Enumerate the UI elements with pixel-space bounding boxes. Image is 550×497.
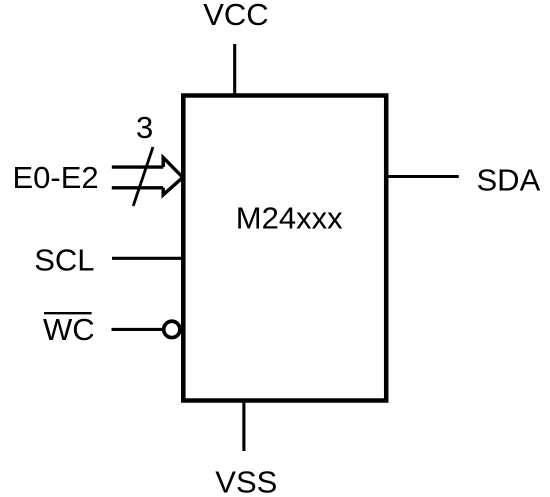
svg-text:3: 3 [136,110,153,145]
svg-text:WC: WC [43,312,95,347]
svg-text:SDA: SDA [477,163,541,198]
svg-text:VSS: VSS [215,465,277,497]
svg-text:SCL: SCL [34,242,94,277]
wire VCC pin [233,44,236,96]
svg-text:E0-E2: E0-E2 [13,160,99,195]
bus arrow E0-E2 (3-bit) [112,158,183,195]
wire SCL pin [112,257,183,260]
svg-text:M24xxx: M24xxx [236,201,343,236]
overline for WC [44,312,92,314]
wire WC pin [112,328,164,331]
wire VSS pin [242,401,245,452]
svg-text:VCC: VCC [203,0,268,32]
chip U1 M24xxx body [183,96,386,401]
active-low bubble on WC [164,321,180,337]
wire SDA pin [386,175,459,178]
bus width slash [133,147,153,206]
